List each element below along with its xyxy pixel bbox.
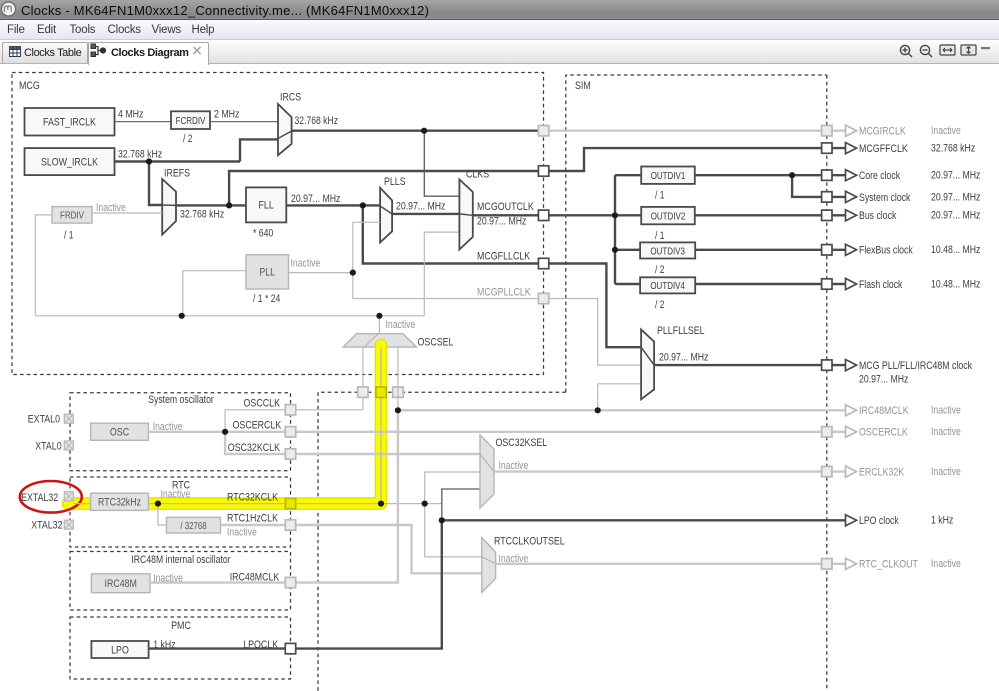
block PLL bbox=[246, 255, 289, 289]
wire to OUTDIV4 bbox=[615, 283, 640, 285]
junction MCGFFCLK tap bbox=[226, 202, 232, 208]
junction IRC48MCLK row bbox=[395, 407, 401, 413]
mux PLLFLLSEL bbox=[641, 330, 654, 400]
svg-text:20.97... MHz: 20.97... MHz bbox=[396, 201, 445, 213]
svg-text:IRCS: IRCS bbox=[280, 92, 301, 104]
svg-text:OSCERCLK: OSCERCLK bbox=[859, 427, 908, 439]
pin XTAL32 bbox=[64, 520, 73, 529]
block FAST_IRCLK bbox=[25, 108, 115, 136]
wire IRCS output bbox=[292, 129, 544, 131]
svg-text:LPO clock: LPO clock bbox=[859, 515, 899, 527]
port FlexBus clock at SIM border bbox=[822, 245, 832, 255]
wire System clock bbox=[792, 175, 827, 197]
port MCGFFCLK at MCG border bbox=[538, 166, 548, 176]
svg-text:/ 32768: / 32768 bbox=[180, 521, 207, 532]
svg-text:Inactive: Inactive bbox=[931, 125, 961, 137]
svg-text:System oscillator: System oscillator bbox=[148, 394, 214, 406]
svg-text:FAST_IRCLK: FAST_IRCLK bbox=[43, 117, 96, 129]
wire MCGIRCLK through SIM bbox=[549, 129, 827, 131]
svg-text:OSC: OSC bbox=[110, 427, 129, 439]
pin EXTAL32 bbox=[64, 492, 73, 501]
svg-text:RTC1HzCLK: RTC1HzCLK bbox=[227, 513, 279, 525]
pin XTAL0 bbox=[64, 441, 73, 450]
MCG region dashed border bbox=[12, 73, 544, 375]
junction PLL output branch bbox=[350, 270, 356, 276]
mux PLLS bbox=[380, 188, 392, 243]
wire SLOW_IRCLK to IREFS bbox=[149, 162, 162, 206]
wire LPO to OSC32KSEL bbox=[442, 489, 480, 520]
port RTC_CLKOUT at SIM border bbox=[822, 559, 832, 569]
wire FRDIV input bbox=[35, 215, 52, 316]
port LPOCLK bbox=[285, 643, 295, 653]
mux OSC32KSEL bbox=[480, 435, 494, 508]
svg-text:MCG PLL/FLL/IRC48M clock: MCG PLL/FLL/IRC48M clock bbox=[859, 360, 972, 372]
wire FAST_IRCLK to FCRDIV bbox=[115, 121, 172, 123]
svg-text:PMC: PMC bbox=[171, 620, 191, 632]
wire OSCSEL net horizontal bbox=[35, 315, 424, 317]
junction OSCSEL net FRDIV-PLL bbox=[179, 313, 185, 319]
port System clock at SIM border bbox=[822, 192, 832, 202]
wire MCGPLLCLK to PLLFLLSEL bbox=[549, 299, 641, 366]
svg-text:32.768 kHz: 32.768 kHz bbox=[118, 149, 162, 161]
wire to OUTDIV1 bbox=[615, 174, 641, 176]
output arrow Bus clock bbox=[846, 210, 857, 221]
annotation red ellipse around EXTAL32 bbox=[20, 481, 82, 513]
svg-text:Inactive: Inactive bbox=[931, 558, 961, 570]
output arrow RTC_CLKOUT bbox=[846, 558, 857, 569]
wire OSCERCLK bbox=[225, 431, 827, 433]
wire RTC32KCLK bbox=[148, 503, 441, 505]
wire MCGIRCLK to arrow bbox=[827, 129, 845, 131]
IRC48M internal oscillator group dashed border bbox=[70, 552, 291, 611]
svg-text:/ 1: / 1 bbox=[64, 230, 74, 242]
svg-text:20.97... MHz: 20.97... MHz bbox=[477, 216, 526, 228]
wire MCGFFCLK inside MCG bbox=[229, 171, 543, 205]
wire MCGOUTCLK to OUTDIV2 bbox=[615, 214, 641, 216]
wire IREFS to FLL bbox=[176, 204, 246, 206]
junction RTC32KCLK to divider bbox=[155, 501, 161, 507]
svg-text:Inactive: Inactive bbox=[161, 489, 191, 501]
wire MCGFLLCLK inside MCG bbox=[363, 205, 544, 263]
block FLL bbox=[246, 187, 286, 222]
port IRC48MCLK bbox=[285, 577, 295, 587]
svg-text:OSCSEL: OSCSEL bbox=[418, 337, 454, 349]
port OSCSEL input RTC32KCLK bbox=[376, 387, 386, 397]
svg-text:SIM: SIM bbox=[575, 80, 591, 92]
junction IRC48MCLK to PLLFLLSEL bbox=[595, 407, 601, 413]
wire MCGOUTCLK to border bbox=[473, 214, 544, 216]
svg-text:OSCCLK: OSCCLK bbox=[244, 398, 281, 410]
svg-text:20.97... MHz: 20.97... MHz bbox=[659, 352, 708, 364]
port Flash clock at SIM border bbox=[822, 279, 832, 289]
svg-text:1 kHz: 1 kHz bbox=[931, 515, 953, 527]
svg-text:20.97... MHz: 20.97... MHz bbox=[859, 374, 908, 386]
wire ERCLK32K to arrow bbox=[827, 470, 845, 472]
port OSCERCLK at osc border bbox=[285, 427, 295, 437]
port RTC1HzCLK bbox=[285, 520, 295, 530]
mux CLKS bbox=[459, 179, 472, 249]
wire PLL to PLLS bbox=[353, 222, 380, 272]
svg-text:Inactive: Inactive bbox=[227, 527, 257, 539]
junction SLOW_IRCLK branch bbox=[146, 158, 152, 164]
wire LPOCLK bbox=[149, 520, 442, 648]
svg-text:IREFS: IREFS bbox=[164, 168, 190, 180]
svg-text:CLKS: CLKS bbox=[466, 169, 489, 181]
divider FRDIV bbox=[52, 207, 92, 224]
System oscillator group dashed border bbox=[70, 393, 291, 471]
svg-text:OUTDIV4: OUTDIV4 bbox=[650, 281, 685, 292]
wire MCGOUTCLK to OUTDIV column bbox=[549, 214, 615, 216]
svg-text:2 MHz: 2 MHz bbox=[214, 109, 239, 121]
junction OUTDIV bus at OUTDIV3 bbox=[612, 247, 618, 253]
svg-text:Inactive: Inactive bbox=[386, 319, 416, 331]
svg-text:/ 1 * 24: / 1 * 24 bbox=[253, 293, 280, 305]
svg-text:FRDIV: FRDIV bbox=[60, 211, 84, 222]
clocks diagram icon bbox=[91, 44, 106, 57]
svg-text:IRC48MCLK: IRC48MCLK bbox=[859, 405, 909, 417]
svg-text:20.97... MHz: 20.97... MHz bbox=[931, 210, 980, 222]
junction OUTDIV bus at OUTDIV2 bbox=[612, 212, 618, 218]
svg-text:MCGPLLCLK: MCGPLLCLK bbox=[477, 287, 531, 299]
svg-text:Core clock: Core clock bbox=[859, 170, 900, 182]
wire RTC1HzCLK bbox=[221, 525, 482, 573]
svg-text:OUTDIV3: OUTDIV3 bbox=[650, 246, 685, 257]
wire PLL input bbox=[183, 271, 246, 316]
svg-text:System clock: System clock bbox=[859, 192, 911, 204]
wire OSCCLK to OSCSEL bbox=[362, 347, 364, 409]
divider FCRDIV bbox=[171, 111, 210, 129]
port MCGFFCLK at SIM border bbox=[822, 143, 832, 153]
wire FLL output bbox=[286, 204, 380, 206]
wire OSCCLK bbox=[225, 410, 363, 432]
wire MCGFFCLK to arrow bbox=[827, 147, 845, 149]
divider OUTDIV1 bbox=[641, 167, 695, 184]
wire IRC48MCLK from osc bbox=[150, 410, 398, 582]
svg-text:RTC32KCLK: RTC32KCLK bbox=[227, 492, 279, 504]
divider 32768 bbox=[167, 517, 221, 533]
divider OUTDIV3 bbox=[640, 242, 695, 258]
svg-text:MCGOUTCLK: MCGOUTCLK bbox=[477, 201, 534, 213]
svg-text:Inactive: Inactive bbox=[499, 460, 529, 472]
svg-text:FLL: FLL bbox=[259, 200, 274, 212]
wire MCG PLL/FLL/IRC48M clock to arrow bbox=[827, 364, 845, 366]
output arrow Flash clock bbox=[846, 278, 857, 289]
clocks table icon bbox=[10, 47, 21, 57]
output arrow OSCERCLK bbox=[846, 426, 857, 437]
port MCGFLLCLK at MCG border bbox=[538, 258, 548, 268]
wire Flash clock bbox=[695, 283, 827, 285]
highlight path EXTAL32 to OSCSEL (fill) bbox=[68, 345, 381, 504]
svg-text:XTAL0: XTAL0 bbox=[35, 440, 61, 452]
svg-text:IRC48M: IRC48M bbox=[105, 578, 137, 590]
wire RTC_CLKOUT row bbox=[496, 563, 827, 565]
svg-text:EXTAL0: EXTAL0 bbox=[28, 414, 60, 426]
svg-text:Inactive: Inactive bbox=[96, 202, 126, 214]
wire ERCLK32K row bbox=[494, 470, 827, 472]
wire OSC output bbox=[148, 431, 225, 433]
wire OUTDIV vertical bus bbox=[614, 175, 616, 284]
svg-text:IRC48M internal oscillator: IRC48M internal oscillator bbox=[131, 554, 230, 566]
highlight path EXTAL32 to OSCSEL (outline) bbox=[68, 345, 381, 504]
port MCGIRCLK at SIM border bbox=[822, 126, 832, 136]
port MCGOUTCLK at MCG border bbox=[538, 210, 548, 220]
block SLOW_IRCLK bbox=[25, 148, 115, 175]
output arrow LPO clock bbox=[846, 515, 857, 526]
svg-text:32.768 kHz: 32.768 kHz bbox=[295, 115, 339, 127]
wire FRDIV to IREFS bbox=[92, 212, 162, 214]
output arrow MCGIRCLK bbox=[846, 125, 857, 136]
wire RTC32KCLK vertical to OSCSEL bbox=[380, 347, 382, 503]
port Core clock at SIM border bbox=[822, 170, 832, 180]
svg-text:RTCCLKOUTSEL: RTCCLKOUTSEL bbox=[494, 536, 565, 548]
oscillator IRC48M bbox=[91, 574, 150, 593]
wire FCRDIV to IRCS bbox=[210, 121, 278, 123]
oscillator RTC32kHz bbox=[91, 493, 149, 510]
svg-text:32.768 kHz: 32.768 kHz bbox=[180, 209, 224, 221]
output arrow IRC48MCLK bbox=[846, 405, 857, 416]
wire Bus clock bbox=[695, 214, 827, 216]
svg-text:Inactive: Inactive bbox=[931, 405, 961, 417]
junction RTC32KCLK branch bbox=[422, 501, 428, 507]
svg-text:/ 1: / 1 bbox=[655, 230, 665, 242]
close x bbox=[194, 47, 201, 54]
svg-text:20.97... MHz: 20.97... MHz bbox=[291, 193, 340, 205]
wire LPO clock row bbox=[442, 519, 845, 521]
wire System clock to arrow bbox=[827, 196, 845, 198]
wire PLLS to CLKS bbox=[392, 213, 459, 215]
svg-text:RTC_CLKOUT: RTC_CLKOUT bbox=[859, 559, 918, 571]
wire RTC32KCLK to OSC32KSEL bbox=[425, 472, 480, 504]
output arrow MCGFFCLK bbox=[846, 143, 857, 154]
junction OSCSEL net output bbox=[376, 313, 382, 319]
mux RTCCLKOUTSEL bbox=[482, 538, 496, 593]
wire SLOW_IRCLK output bbox=[115, 160, 241, 162]
junction RTC32KCLK corner bbox=[378, 501, 384, 507]
output arrow Core clock bbox=[846, 170, 857, 181]
svg-text:Inactive: Inactive bbox=[291, 258, 321, 270]
output arrow FlexBus clock bbox=[846, 244, 857, 255]
svg-text:OUTDIV1: OUTDIV1 bbox=[651, 171, 686, 182]
wire RTC32KCLK thin bbox=[73, 503, 90, 505]
svg-text:PLLS: PLLS bbox=[384, 176, 406, 188]
wire FlexBus clock bbox=[695, 249, 827, 251]
svg-text:PLL: PLL bbox=[259, 267, 275, 279]
port MCG PLL/FLL/IRC48M clock at SIM border bbox=[822, 360, 832, 370]
wire Core clock bbox=[695, 174, 827, 176]
pin EXTAL0 bbox=[64, 414, 73, 423]
svg-text:SLOW_IRCLK: SLOW_IRCLK bbox=[41, 156, 99, 168]
junction FLL output branch bbox=[360, 202, 366, 208]
svg-text:ERCLK32K: ERCLK32K bbox=[859, 467, 905, 479]
junction System clock tap bbox=[789, 172, 795, 178]
svg-text:Flash clock: Flash clock bbox=[859, 279, 903, 291]
svg-text:MCG: MCG bbox=[19, 80, 40, 92]
port ERCLK32K at SIM border bbox=[822, 466, 832, 476]
svg-text:IRC48MCLK: IRC48MCLK bbox=[230, 572, 280, 584]
wire FlexBus clock to arrow bbox=[827, 249, 845, 251]
oscillator OSC bbox=[91, 423, 149, 440]
port OSCSEL input IRC48MCLK bbox=[393, 387, 403, 397]
junction OSC output bbox=[222, 429, 228, 435]
divider OUTDIV2 bbox=[641, 207, 695, 224]
wire Bus clock to arrow bbox=[827, 214, 845, 216]
mux OSCSEL bbox=[343, 334, 416, 347]
wire OSCSEL net to CLKS bbox=[424, 232, 459, 316]
svg-text:LPO: LPO bbox=[111, 644, 129, 656]
svg-text:PLLFLLSEL: PLLFLLSEL bbox=[657, 325, 705, 337]
block LPO bbox=[91, 641, 148, 658]
wire OSC32KCLK bbox=[225, 432, 480, 454]
wire IRC48M to PLLFLLSEL bbox=[598, 384, 641, 411]
wire MCGPLLCLK inside MCG bbox=[353, 273, 544, 299]
svg-text:OSC32KSEL: OSC32KSEL bbox=[496, 437, 548, 449]
svg-text:32.768 kHz: 32.768 kHz bbox=[931, 143, 975, 155]
output arrow MCG PLL/FLL/IRC48M clock bbox=[846, 360, 857, 371]
svg-text:OUTDIV2: OUTDIV2 bbox=[651, 211, 686, 222]
svg-text:MCGFLLCLK: MCGFLLCLK bbox=[477, 251, 531, 263]
divider OUTDIV4 bbox=[640, 277, 695, 293]
port Bus clock at SIM border bbox=[822, 210, 832, 220]
svg-text:/ 2: / 2 bbox=[655, 299, 665, 311]
port OSCCLK bbox=[285, 405, 295, 415]
wire SLOW_IRCLK to IRCS bbox=[240, 139, 278, 161]
svg-text:Inactive: Inactive bbox=[931, 426, 961, 438]
svg-text:/ 2: / 2 bbox=[183, 133, 193, 145]
svg-text:OSC32KCLK: OSC32KCLK bbox=[228, 442, 281, 454]
wire RTC_CLKOUT to arrow bbox=[827, 563, 845, 565]
zoom icons right bbox=[900, 45, 932, 57]
wire RTC32KCLK to RTCCLKOUTSEL bbox=[425, 504, 482, 557]
port RTC32KCLK bbox=[285, 498, 295, 508]
RTC group dashed border bbox=[70, 477, 291, 547]
wire OSCSEL output up bbox=[378, 316, 380, 334]
output arrow ERCLK32K bbox=[846, 466, 857, 477]
wire MCG PLL/FLL/IRC48M clock bbox=[654, 364, 827, 366]
wire IRC48MCLK row bbox=[398, 409, 845, 411]
mux IREFS bbox=[162, 179, 176, 235]
svg-text:RTC32kHz: RTC32kHz bbox=[98, 497, 141, 509]
svg-text:MCGFFCLK: MCGFFCLK bbox=[859, 143, 908, 155]
port OSC32KCLK bbox=[285, 449, 295, 459]
junction IRCS output branch bbox=[421, 128, 427, 134]
wire MCGFLLCLK to PLLFLLSEL bbox=[549, 264, 641, 348]
junction LPO branch bbox=[439, 517, 445, 523]
svg-text:10.48... MHz: 10.48... MHz bbox=[931, 278, 980, 290]
svg-text:4 MHz: 4 MHz bbox=[118, 109, 143, 121]
svg-text:20.97... MHz: 20.97... MHz bbox=[931, 170, 980, 182]
svg-text:* 640: * 640 bbox=[253, 228, 273, 240]
svg-text:Inactive: Inactive bbox=[931, 466, 961, 478]
PMC group dashed border bbox=[70, 617, 291, 679]
output arrow System clock bbox=[846, 191, 857, 202]
svg-text:/ 1: / 1 bbox=[655, 190, 665, 202]
port MCGIRCLK at MCG border bbox=[538, 126, 548, 136]
wire MCGFFCLK jog bbox=[549, 148, 827, 171]
svg-text:FCRDIV: FCRDIV bbox=[176, 116, 206, 127]
wire RTC to 32768 divider bbox=[158, 504, 167, 525]
wire Flash clock to arrow bbox=[827, 283, 845, 285]
port OSCSEL input OSCCLK bbox=[358, 387, 368, 397]
svg-text:XTAL32: XTAL32 bbox=[31, 520, 62, 532]
wire Core clock to arrow bbox=[827, 174, 845, 176]
wire OSCSEL input 3 vertical bbox=[397, 347, 399, 410]
svg-text:MCGIRCLK: MCGIRCLK bbox=[859, 126, 906, 138]
svg-text:EXTAL32: EXTAL32 bbox=[21, 492, 58, 504]
port MCGPLLCLK at MCG border bbox=[538, 293, 548, 303]
wire PLL output bbox=[289, 272, 353, 274]
svg-text:10.48... MHz: 10.48... MHz bbox=[931, 244, 980, 256]
wire IRCS to CLKS bbox=[424, 131, 459, 197]
SIM region dashed border bbox=[318, 75, 827, 691]
svg-text:20.97... MHz: 20.97... MHz bbox=[931, 191, 980, 203]
svg-text:/ 2: / 2 bbox=[655, 264, 665, 276]
port OSCERCLK at SIM border bbox=[822, 427, 832, 437]
wire to OUTDIV3 bbox=[615, 249, 640, 251]
wire OSCERCLK to arrow bbox=[827, 431, 845, 433]
svg-text:Bus clock: Bus clock bbox=[859, 210, 897, 222]
svg-text:FlexBus clock: FlexBus clock bbox=[859, 245, 913, 257]
mux IRCS bbox=[278, 104, 292, 155]
svg-text:OSCERCLK: OSCERCLK bbox=[233, 419, 282, 431]
